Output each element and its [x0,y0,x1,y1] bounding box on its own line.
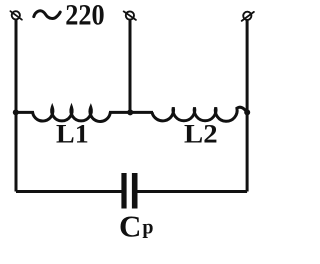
svg-text:L2: L2 [184,120,218,149]
wire left vertical [15,19,18,191]
junction node B (middle) [127,109,133,115]
wire right vertical [246,20,249,192]
capacitor Cp [121,173,137,209]
terminal T1 (left input terminal) [10,11,22,20]
junction node C (right) [244,109,250,115]
inductor L1 [16,107,110,121]
label Cp [119,208,154,243]
wire bottom left [16,190,122,193]
terminal T2 (middle terminal) [124,11,136,20]
wire bottom right [137,190,247,193]
junction node A (left) [13,109,19,115]
svg-text:p: p [142,217,153,239]
svg-text:220: 220 [65,0,104,31]
terminal T3 (right input terminal) [242,12,254,21]
inductor L2 [152,107,247,121]
label ~220 (AC supply voltage) [34,0,105,31]
svg-text:L1: L1 [56,120,89,149]
wire middle vertical [129,20,132,113]
svg-text:C: C [119,208,141,243]
wire between L1 and L2 [109,111,153,114]
